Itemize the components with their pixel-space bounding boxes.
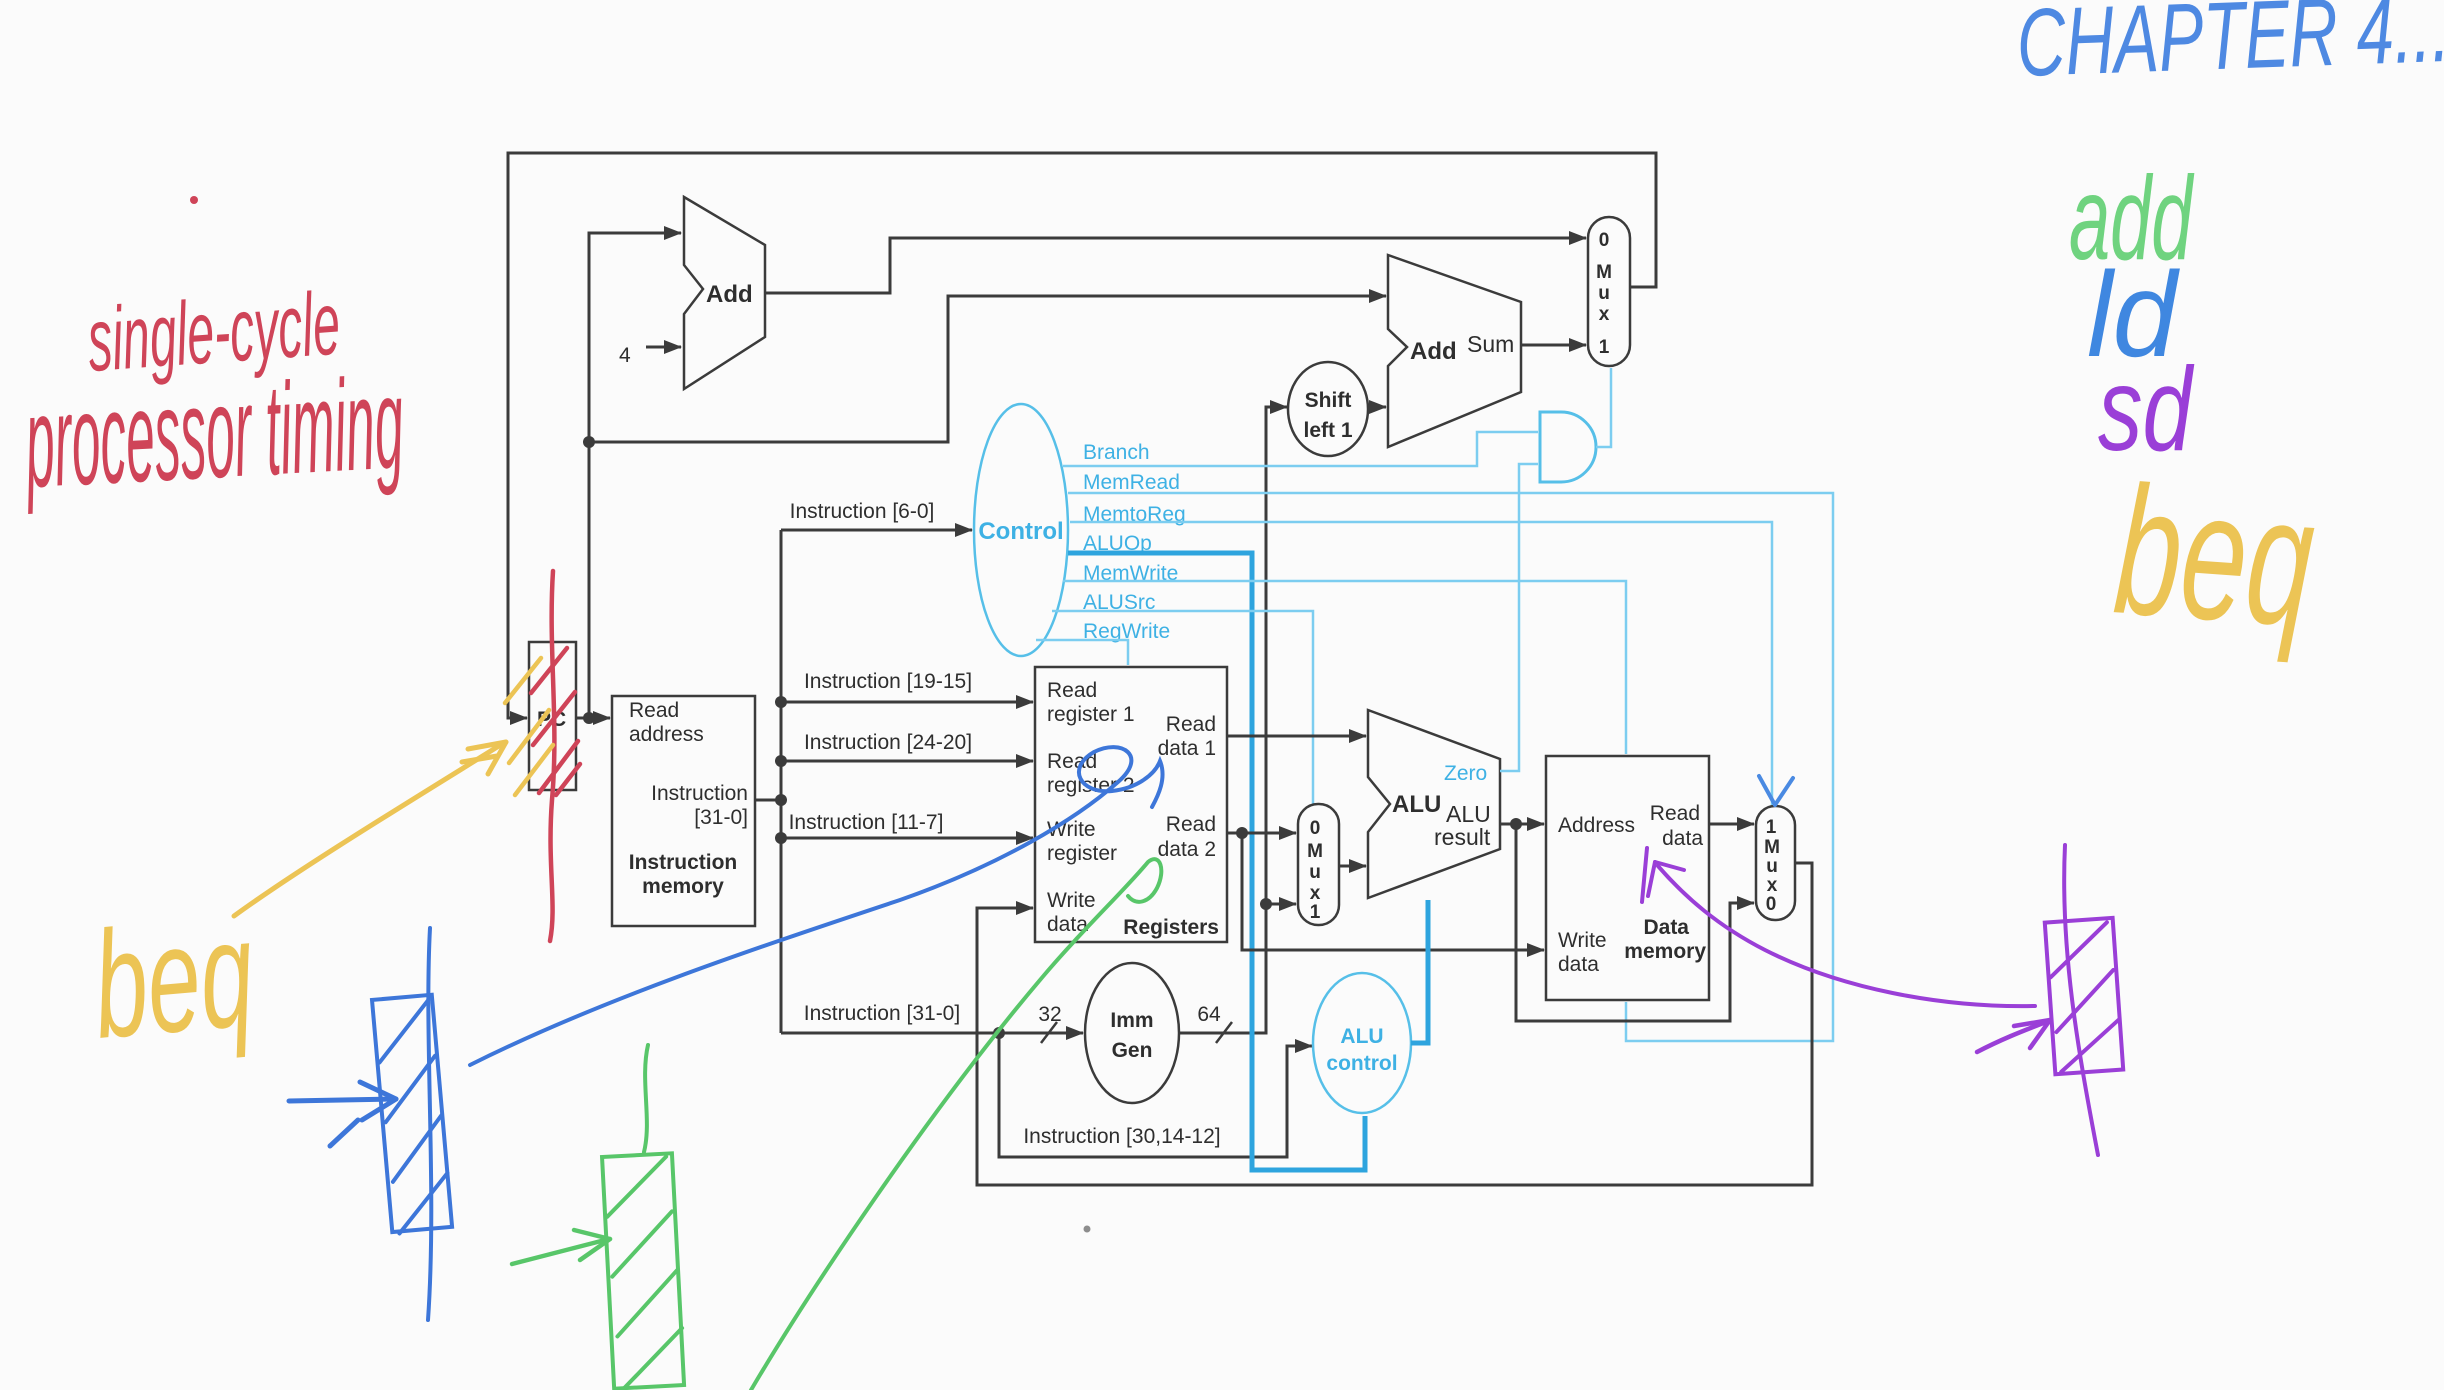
svg-text:Instruction [24-20]: Instruction [24-20] [804,731,972,754]
wire Read data 2 to mux [1227,832,1296,835]
svg-text:result: result [1434,824,1491,850]
svg-text:Add: Add [706,281,753,308]
svg-text:Branch: Branch [1083,441,1150,464]
wire Read data to mux input 1 [1709,823,1754,826]
annotation green arrow into register [512,1230,610,1264]
annotation yellow arrow to PC [234,742,506,916]
data memory [1546,756,1709,1000]
alu control unit [1313,973,1411,1113]
annotation purple curve to data memory [1642,848,2035,1006]
annotation green curve to write data [751,859,1161,1390]
mux PCSrc [1588,217,1630,366]
adder Add Sum (branch target) [1388,255,1521,447]
node instruction bus junction 11-7 [775,832,787,844]
svg-text:Instruction [11-7]: Instruction [11-7] [789,811,944,834]
wire ImmGen to ALUSrc mux input 1 [1266,903,1296,906]
register file Registers [1035,667,1227,942]
svg-text:beq: beq [2109,447,2320,665]
node Read data 2 junction [1236,827,1248,839]
svg-text:Add: Add [1410,338,1457,365]
wire ALU result to Data memory address [1500,823,1544,826]
annotation blue arrow at MemtoReg mux [1759,776,1793,805]
mux MemtoReg [1756,806,1795,920]
svg-text:Instruction [30,14-12]: Instruction [30,14-12] [1023,1125,1220,1148]
annotation blue curve to read register 2 [470,747,1163,1065]
wire instruction bus [755,799,781,802]
svg-text:M: M [1307,841,1323,862]
wire mux to ALU input B [1339,865,1366,868]
svg-text:left 1: left 1 [1303,419,1352,442]
svg-text:processor timing: processor timing [20,349,406,515]
svg-text:control: control [1326,1052,1397,1075]
svg-text:register: register [1047,842,1117,865]
svg-text:32: 32 [1038,1003,1061,1026]
wire Instruction 6-0 to Control [781,500,972,530]
mux ALUSrc [1298,804,1339,925]
svg-text:x: x [1599,304,1610,325]
annotation blue hatched register [372,995,452,1234]
svg-text:Write: Write [1558,929,1607,952]
svg-text:Instruction: Instruction [651,782,748,805]
svg-text:Zero: Zero [1444,762,1487,785]
svg-text:Read: Read [629,699,679,722]
svg-text:64: 64 [1197,1003,1221,1026]
svg-text:Registers: Registers [1123,916,1219,939]
node branch adder tap junction [583,436,595,448]
alu ALU [1368,710,1500,898]
svg-text:Read: Read [1650,802,1700,825]
svg-text:Gen: Gen [1112,1039,1153,1062]
svg-text:Sum: Sum [1467,331,1514,357]
adder Add (PC+4) [684,197,765,389]
annotation red hatching on PC [531,648,580,795]
svg-text:Imm: Imm [1110,1009,1153,1032]
wire Instruction 31-0 to ImmGen [781,1002,1083,1043]
svg-text:Read: Read [1166,713,1216,736]
svg-text:ALU: ALU [1340,1025,1383,1048]
svg-text:CHAPTER 4...: CHAPTER 4... [2015,0,2444,97]
svg-text:Control: Control [978,518,1063,545]
svg-text:Write: Write [1047,889,1096,912]
annotation purple arrow into register [1977,1020,2050,1052]
svg-text:M: M [1764,837,1780,858]
svg-text:u: u [1598,283,1610,304]
wire shift to branch adder [1368,406,1386,409]
svg-text:address: address [629,723,704,746]
wire write-back to registers [977,863,1812,1185]
signal MemWrite [1063,562,1626,754]
wire 4 to Add [646,346,681,349]
node PC output junction [583,712,595,724]
wire Instruction 11-7 [781,811,1033,838]
svg-text:Instruction [6-0]: Instruction [6-0] [790,500,935,523]
annotation blue arrow into register [289,1082,396,1146]
svg-text:x: x [1310,883,1321,904]
wire Instruction 24-20 [781,731,1033,761]
svg-text:1: 1 [1599,337,1610,358]
svg-text:beq: beq [87,887,260,1070]
svg-text:register 1: register 1 [1047,703,1135,726]
svg-text:x: x [1767,875,1778,896]
signal Branch [1063,432,1538,466]
wire Zero to AND gate [1500,464,1538,771]
svg-text:Address: Address [1558,814,1635,837]
wire Read data 2 to Data memory write data [1242,833,1544,950]
svg-text:Read: Read [1047,679,1097,702]
wire PC to branch adder [589,296,1386,442]
svg-text:memory: memory [642,875,724,898]
wire ALU result to MemtoReg mux input 0 [1516,824,1754,1021]
instruction memory [612,696,755,926]
annotation green squiggle [644,1045,648,1152]
svg-text:4: 4 [619,344,631,367]
register PC [529,642,576,790]
svg-text:Data: Data [1643,916,1689,939]
svg-text:1: 1 [1766,817,1777,838]
svg-text:ALU: ALU [1392,791,1441,818]
signal ALUOp [1068,532,1365,1170]
svg-text:Read: Read [1166,813,1216,836]
annotation red dot [190,196,198,204]
svg-text:0: 0 [1310,818,1321,839]
svg-text:data 2: data 2 [1158,838,1216,861]
signal RegWrite [1036,620,1170,665]
wire Read data 1 to ALU [1227,735,1366,738]
svg-text:1: 1 [1310,902,1321,923]
wire AND output to mux select [1596,368,1611,447]
svg-text:data: data [1558,953,1599,976]
node instruction bus junction 19-15 [775,696,787,708]
wire Add output to Mux0 [765,238,1586,293]
shifter Shift left 1 [1288,362,1368,456]
svg-text:data: data [1662,827,1703,850]
wire PC-mux feedback outer loop [508,153,1656,718]
svg-text:0: 0 [1766,894,1777,915]
wire ALU control to ALU [1411,900,1428,1043]
svg-text:Instruction: Instruction [629,851,738,874]
sign extender Imm Gen [1085,963,1179,1103]
svg-text:data 1: data 1 [1158,737,1216,760]
wire ImmGen output to mux and shift [1179,407,1287,1043]
control unit [974,404,1068,656]
node ALU result junction [1510,818,1522,830]
wire Instruction 19-15 [781,670,1033,702]
annotation red squiggle over PC [550,571,554,941]
svg-text:Instruction [31-0]: Instruction [31-0] [804,1002,960,1025]
wire PC to instruction memory [576,717,610,720]
node instruction bus junction 24-20 [775,755,787,767]
node instruction 30,14-12 junction [993,1027,1005,1039]
svg-text:memory: memory [1624,940,1706,963]
annotation purple vertical line [2064,845,2098,1155]
annotation green hatched register [602,1153,685,1389]
annotation yellow hatching on PC [505,658,553,795]
wire PC output up to Add [589,233,681,718]
svg-text:u: u [1766,856,1778,877]
svg-text:Shift: Shift [1305,389,1352,412]
wire Sum to Mux1 input 1 [1521,344,1586,347]
node instruction bus junction memout [775,794,787,806]
svg-text:[31-0]: [31-0] [694,806,748,829]
annotation stray pen dot [1084,1226,1091,1233]
gate AND (branch) [1540,412,1596,482]
signal ALUSrc [1052,591,1313,804]
signal MemRead [1068,471,1833,1041]
svg-text:Instruction [19-15]: Instruction [19-15] [804,670,972,693]
annotation purple hatched register [2045,918,2123,1074]
svg-text:0: 0 [1599,230,1610,251]
svg-text:MemRead: MemRead [1083,471,1180,494]
wire Instruction 30,14-12 to ALU control [999,1033,1312,1157]
svg-text:u: u [1309,862,1321,883]
svg-text:M: M [1596,262,1612,283]
annotation blue vertical line [428,928,431,1320]
node ImmGen to mux junction [1260,898,1272,910]
signal MemtoReg [1070,503,1772,806]
